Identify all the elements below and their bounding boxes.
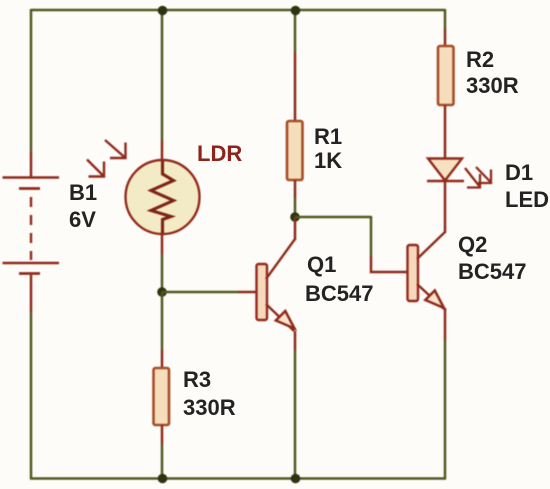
wire Q1 collector vertical	[294, 217, 297, 240]
label R3	[183, 369, 211, 391]
LED light arrow 1	[465, 168, 480, 188]
wire LDR bottom lead	[161, 232, 164, 254]
label 330R R2	[466, 75, 519, 97]
wire R1 to node B	[294, 198, 297, 217]
label LDR	[197, 143, 242, 165]
wire bottom rail	[30, 477, 446, 480]
wire R3 bottom lead	[161, 425, 164, 444]
wire left rail lower	[30, 312, 33, 479]
label Q1	[307, 254, 336, 276]
transistor Q2	[408, 232, 446, 309]
wire R1 bottom lead	[294, 180, 297, 198]
node A junction	[157, 287, 167, 297]
wire R3 to bottom rail	[161, 444, 164, 479]
label BC547 Q2	[458, 261, 526, 283]
label 6V	[69, 209, 96, 231]
LED D1	[427, 159, 464, 182]
top junction R1 branch	[291, 6, 301, 16]
label BC547 Q1	[305, 283, 373, 305]
wire R2 to LED	[444, 105, 447, 158]
wire Q2 base lead	[371, 256, 408, 272]
battery B1	[3, 178, 60, 274]
wire R3 top lead	[161, 350, 164, 368]
wire base of Q1	[162, 291, 238, 294]
wire battery top lead	[30, 152, 33, 178]
LDR photoresistor	[126, 160, 200, 235]
wire R1 branch upper	[294, 10, 297, 52]
wire right rail top	[444, 9, 447, 28]
wire right rail bottom	[444, 340, 447, 479]
resistor R2	[438, 46, 454, 105]
LDR light arrow 1	[105, 140, 126, 158]
wire LDR branch upper	[161, 10, 164, 140]
wire Q1 base lead	[238, 291, 257, 294]
wire left rail upper	[30, 9, 33, 152]
label 330R R3	[183, 397, 236, 419]
label R2	[466, 49, 494, 71]
resistor R1	[287, 121, 303, 180]
wire node A to R3	[161, 292, 164, 350]
wire node B to Q2 base horizontal	[295, 216, 371, 219]
LDR light arrow 2	[87, 160, 104, 177]
transistor Q1	[257, 239, 296, 331]
bottom junction left	[158, 474, 168, 484]
top junction LDR branch	[158, 6, 168, 16]
wire battery bottom lead	[30, 275, 33, 312]
node B junction	[290, 212, 300, 222]
label Q2	[458, 234, 487, 256]
LED light arrow 2	[476, 167, 491, 183]
label 1K	[314, 150, 342, 172]
label LED	[505, 189, 549, 211]
wire Q2 base vertical	[370, 216, 373, 256]
wire top rail	[31, 9, 445, 12]
wire Q2 emitter to bottom rail	[444, 308, 447, 340]
label D1	[505, 162, 533, 184]
wire LED to Q2 collector	[444, 181, 447, 233]
wire LDR to node A	[161, 254, 164, 292]
bottom junction right	[291, 474, 301, 484]
label R1	[314, 126, 342, 148]
resistor R3	[154, 368, 170, 425]
wire R1 top lead	[294, 52, 297, 121]
label B1	[69, 182, 97, 204]
wire R2 top lead	[444, 28, 447, 46]
wire Q1 emitter to bottom rail	[294, 350, 297, 479]
wire LDR top lead	[161, 140, 164, 162]
wire Q1 emitter lead	[294, 331, 297, 350]
